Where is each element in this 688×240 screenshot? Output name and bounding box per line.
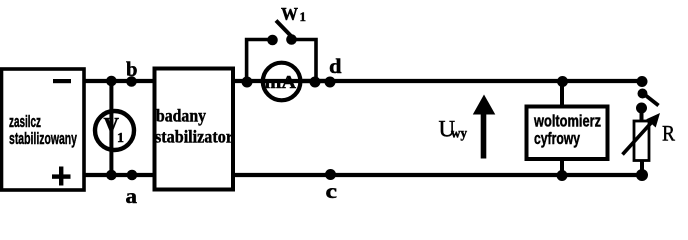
svg-text:badany: badany: [156, 105, 206, 125]
voltmeter V1: [95, 111, 134, 150]
switch blade right branch: [645, 95, 659, 106]
voltmeter stub bottom: [560, 159, 564, 175]
switch W1 right contact: [286, 34, 297, 45]
junction top of V1 branch: [106, 76, 117, 87]
junction right riser: [310, 77, 321, 88]
switch W1 bypass loop left riser: [247, 40, 268, 82]
svg-text:W: W: [281, 4, 298, 24]
switch contact lower (right branch): [636, 103, 647, 114]
svg-text:woltomierz: woltomierz: [533, 112, 601, 131]
switch W1 blade: [276, 21, 292, 37]
arrow Uwy: [481, 108, 487, 159]
svg-text:R: R: [662, 121, 675, 146]
svg-text:d: d: [329, 54, 342, 78]
switch contact upper (right branch): [638, 89, 648, 99]
wire stub rheostat bottom: [640, 160, 644, 175]
wire top rail b-d: [84, 79, 642, 83]
svg-text:1: 1: [117, 131, 124, 146]
junction bottom right: [636, 169, 648, 181]
voltmeter box (woltomierz cyfrowy) stub top: [560, 81, 564, 107]
svg-text:c: c: [326, 179, 338, 203]
node b junction: [126, 76, 137, 87]
rheostat arrow: [623, 123, 652, 155]
stabilizer box U1 (badany stabilizator): [155, 69, 234, 190]
node a junction: [127, 170, 138, 181]
wire V1 branch vertical: [109, 81, 113, 175]
svg-text:wy: wy: [451, 126, 467, 141]
node c junction: [325, 169, 336, 180]
wire stub to rheostat: [640, 108, 644, 122]
junction voltmeter bottom: [557, 170, 568, 181]
minus terminal of PS1: [53, 79, 71, 83]
plus terminal of PS1: [52, 174, 71, 178]
voltmeter box: [527, 107, 608, 160]
node d junction: [325, 77, 336, 88]
svg-text:b: b: [126, 57, 138, 81]
junction bottom of V1 branch: [106, 170, 117, 181]
junction top right: [637, 76, 648, 87]
rheostat R body: [634, 121, 649, 161]
switch W1 right riser: [296, 40, 316, 82]
svg-text:stabilizowany: stabilizowany: [9, 129, 77, 148]
milliammeter mA: [263, 63, 301, 101]
svg-text:1: 1: [300, 9, 307, 24]
junction voltmeter top: [557, 76, 568, 87]
junction left riser: [242, 77, 253, 88]
wire bottom rail a-c: [84, 173, 642, 177]
switch W1 left contact: [267, 35, 278, 46]
svg-text:cyfrowy: cyfrowy: [534, 129, 580, 148]
power supply box PS1 (zasilacz stabilizowany): [2, 69, 85, 190]
svg-text:a: a: [126, 184, 138, 208]
svg-text:stabilizator: stabilizator: [155, 127, 233, 147]
